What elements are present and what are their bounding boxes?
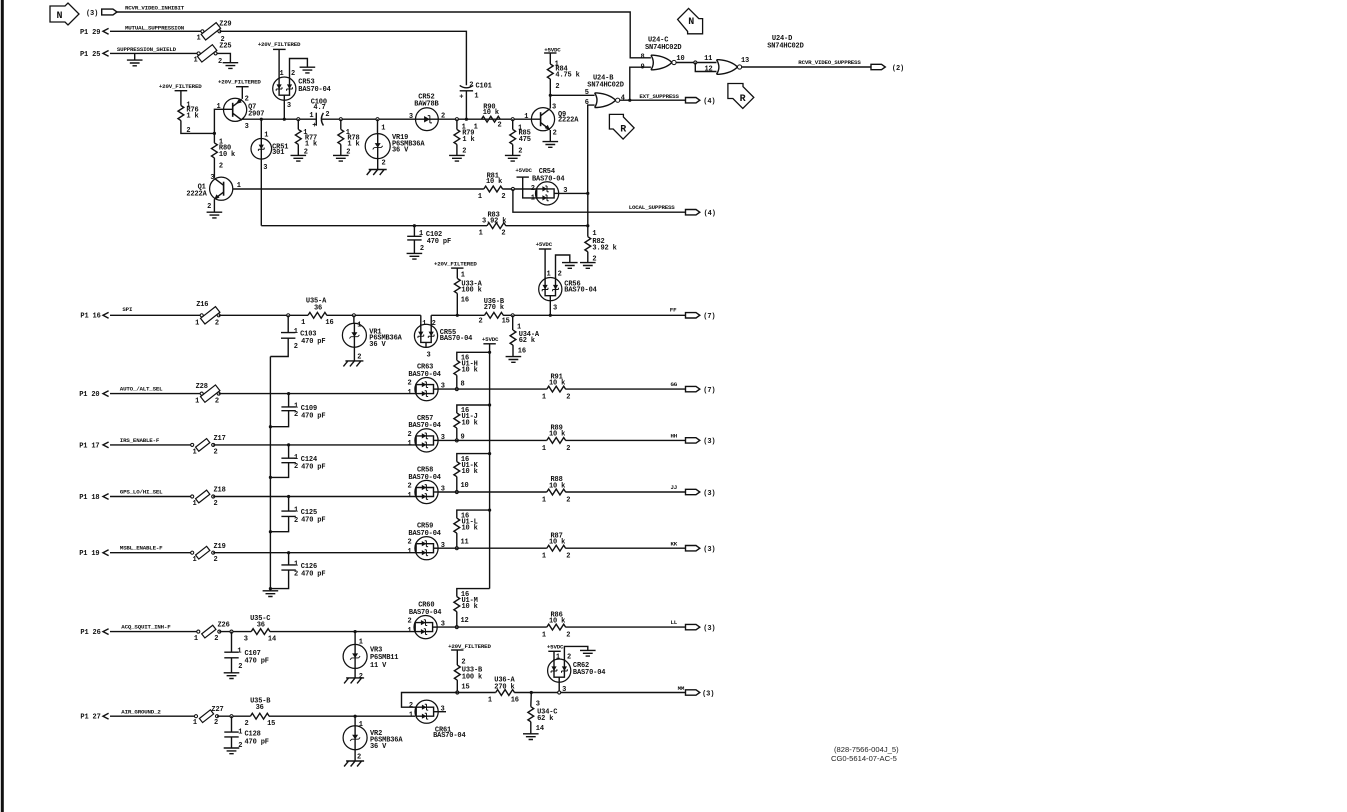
svg-text:2: 2: [498, 122, 502, 130]
svg-text:Z25: Z25: [219, 42, 231, 50]
wire: [219, 314, 308, 316]
svg-text:10 k: 10 k: [486, 178, 502, 186]
wire: [340, 119, 342, 129]
wire: [456, 144, 458, 155]
zener VR1: [342, 322, 402, 362]
junction: [455, 547, 458, 550]
wire: [213, 133, 215, 143]
svg-text:2: 2: [214, 448, 218, 456]
resistor U1-H: [454, 355, 478, 389]
ground: [223, 63, 239, 69]
wire: [512, 315, 514, 330]
wire: [110, 552, 192, 554]
resistor R90: [474, 103, 502, 131]
wire CR53 pin3 to bus: [283, 100, 285, 119]
wire: [456, 268, 458, 278]
svg-text:+20V_FILTERED: +20V_FILTERED: [258, 41, 301, 48]
svg-text:3: 3: [536, 701, 540, 709]
svg-text:2: 2: [555, 83, 559, 91]
output flag GG: [686, 386, 716, 395]
svg-text:10 k: 10 k: [462, 468, 478, 476]
svg-text:BAS70-04: BAS70-04: [408, 474, 440, 482]
svg-text:1: 1: [238, 729, 242, 737]
svg-text:36 V: 36 V: [369, 341, 386, 349]
wire CR56 pin1: [544, 249, 546, 278]
output flag FF: [686, 313, 716, 322]
svg-text:P1 17: P1 17: [79, 442, 99, 450]
svg-text:EXT_SUPPRESS: EXT_SUPPRESS: [639, 93, 679, 100]
diode CR56: [539, 271, 597, 313]
resistor R84: [547, 61, 579, 91]
svg-text:36: 36: [314, 304, 322, 312]
svg-text:3: 3: [553, 305, 557, 313]
connector pin P1 29: [80, 28, 109, 36]
wire Q1 emitter: [213, 199, 215, 212]
svg-text:1: 1: [359, 638, 363, 646]
svg-text:11 V: 11 V: [370, 662, 387, 670]
resistor R81: [478, 172, 506, 201]
svg-text:BAS70-04: BAS70-04: [408, 371, 440, 379]
svg-text:36: 36: [257, 621, 265, 629]
resistor U1-J: [454, 407, 478, 441]
wire to CR61 pin2: [402, 693, 458, 708]
wire: [213, 552, 416, 554]
svg-text:12: 12: [705, 65, 713, 73]
svg-text:+5VDC: +5VDC: [515, 167, 532, 174]
svg-text:14: 14: [268, 636, 276, 644]
svg-text:P1 20: P1 20: [79, 391, 99, 399]
svg-text:R: R: [620, 125, 626, 136]
connector pin P1 20: [79, 391, 108, 399]
svg-text:+20V_FILTERED: +20V_FILTERED: [159, 83, 202, 90]
wire: [110, 393, 202, 395]
wire: [354, 668, 356, 678]
output flag HH: [686, 438, 716, 447]
wire: [438, 491, 547, 493]
capacitor C100: [309, 98, 329, 129]
net label SPI: [122, 306, 133, 313]
svg-text:475: 475: [519, 136, 531, 144]
capacitor C125: [270, 497, 325, 532]
zener VR3: [343, 638, 398, 681]
svg-text:10 k: 10 k: [219, 151, 235, 159]
svg-text:3: 3: [210, 174, 214, 182]
svg-text:1: 1: [264, 132, 268, 140]
svg-text:+: +: [312, 122, 316, 130]
net label AIR_GROUND_2: [121, 708, 161, 715]
input flag (3): [86, 9, 117, 18]
wire Z25 to ground: [216, 53, 230, 62]
svg-text:1: 1: [422, 320, 426, 328]
wire SPI: [110, 314, 202, 316]
wire: [340, 144, 342, 155]
wire R83 row: [261, 225, 487, 227]
junction: [488, 351, 491, 354]
power +5VDC: [515, 167, 532, 177]
wire to CR54 pin 2: [502, 188, 536, 190]
capacitor C107: [224, 632, 269, 673]
svg-text:2: 2: [219, 163, 223, 171]
wire CR51 pin3 down: [260, 159, 262, 226]
resistor R87: [542, 532, 570, 560]
svg-text:P1 25: P1 25: [80, 51, 100, 59]
ground: [224, 673, 240, 679]
svg-text:2: 2: [558, 271, 562, 279]
wire CR53 pin1: [278, 49, 280, 77]
svg-text:470 pF: 470 pF: [427, 238, 451, 246]
wire down to R82 node: [587, 193, 589, 225]
svg-text:1: 1: [408, 548, 412, 556]
wire: [587, 252, 589, 263]
junction: [287, 551, 290, 554]
svg-text:62 k: 62 k: [519, 337, 535, 345]
svg-text:LOCAL_SUPPRESS: LOCAL_SUPPRESS: [629, 204, 676, 211]
svg-text:3: 3: [263, 164, 267, 172]
wire: [456, 293, 458, 315]
resistor R80: [211, 139, 235, 171]
diode CR55: [414, 320, 472, 359]
svg-text:2: 2: [408, 431, 412, 439]
wire: [549, 79, 551, 95]
resistor U36-B: [479, 298, 510, 326]
junction: [213, 132, 216, 135]
svg-text:10: 10: [461, 482, 469, 490]
svg-text:2: 2: [214, 719, 218, 727]
net label IRS_ENABLE-F: [120, 437, 160, 444]
svg-text:1: 1: [408, 389, 412, 397]
transistor Q7: [217, 96, 265, 131]
capacitor C101: [459, 81, 491, 101]
wire: [213, 496, 416, 498]
svg-text:2: 2: [469, 81, 473, 89]
svg-text:BAW78B: BAW78B: [414, 100, 439, 108]
wire: [457, 589, 490, 597]
net label GG: [671, 381, 678, 388]
ground: [407, 253, 423, 259]
svg-text:36 V: 36 V: [370, 743, 387, 751]
wire: [354, 750, 356, 761]
svg-text:10 k: 10 k: [549, 539, 565, 547]
svg-text:(4): (4): [704, 210, 716, 218]
off-page connector R: [728, 84, 754, 109]
svg-text:2: 2: [294, 463, 298, 471]
svg-text:2: 2: [566, 445, 570, 453]
svg-text:1: 1: [280, 70, 284, 78]
svg-text:1: 1: [408, 627, 412, 635]
svg-text:2: 2: [408, 618, 412, 626]
svg-text:2: 2: [566, 632, 570, 640]
svg-text:2: 2: [214, 556, 218, 564]
svg-text:3.92 k: 3.92 k: [592, 245, 616, 253]
svg-text:470 pF: 470 pF: [245, 657, 269, 665]
svg-text:GPS_LO/HI_SEL: GPS_LO/HI_SEL: [120, 489, 163, 496]
wire: [456, 119, 458, 129]
wire: [269, 715, 415, 717]
svg-text:2: 2: [214, 500, 218, 508]
wire: [565, 491, 685, 493]
wire CR54 pin3: [559, 192, 588, 194]
wire: [456, 533, 458, 548]
wire: [213, 444, 416, 446]
power +20V_FILTERED: [218, 78, 261, 86]
svg-text:FF: FF: [670, 307, 677, 314]
wire Q1 collector to R81: [233, 188, 484, 190]
svg-text:BAS70-04: BAS70-04: [564, 287, 596, 295]
svg-text:3: 3: [245, 123, 249, 131]
wire to CR54 pin 1: [523, 177, 537, 198]
junction: [376, 118, 379, 121]
svg-text:2: 2: [215, 319, 219, 327]
output flag RCVR_VIDEO_SUPPRESS: [871, 64, 904, 73]
filter Z16: [195, 301, 220, 328]
zener VR19: [365, 125, 425, 168]
NOR gate U24-B: [585, 75, 625, 108]
filter Z17: [191, 435, 226, 456]
resistor R91: [542, 373, 570, 401]
svg-text:+5VDC: +5VDC: [536, 241, 553, 248]
diode CR63: [408, 364, 445, 401]
wire MUTUAL_SUPPRESSION: [110, 30, 202, 32]
wire +5VDC rail: [489, 344, 491, 589]
net label EXT_SUPPRESS: [639, 93, 679, 100]
svg-text:ACQ_SQUIT_INH-F: ACQ_SQUIT_INH-F: [121, 624, 171, 631]
svg-text:1: 1: [294, 328, 298, 336]
power +20V_FILTERED: [434, 261, 477, 269]
svg-text:IRS_ENABLE-F: IRS_ENABLE-F: [120, 437, 160, 444]
diode CR57: [408, 415, 445, 452]
svg-text:2: 2: [325, 111, 329, 119]
svg-text:270 k: 270 k: [484, 304, 504, 312]
wire: [180, 91, 182, 106]
svg-text:+: +: [459, 94, 463, 102]
svg-text:SUPPRESSION_SHIELD: SUPPRESSION_SHIELD: [117, 46, 177, 53]
svg-text:62 k: 62 k: [537, 715, 553, 723]
ground: [580, 650, 596, 656]
svg-text:12: 12: [461, 617, 469, 625]
junction: [297, 118, 300, 121]
svg-text:(3): (3): [703, 490, 715, 498]
wire: [297, 144, 299, 155]
svg-text:(3): (3): [703, 546, 715, 554]
svg-text:270 k: 270 k: [494, 683, 514, 691]
wire SUPPRESSION_SHIELD: [110, 52, 198, 54]
svg-text:SN74HC02D: SN74HC02D: [767, 43, 803, 51]
svg-text:(3): (3): [703, 625, 715, 633]
net label FF: [670, 307, 677, 314]
svg-text:SPI: SPI: [122, 306, 133, 313]
svg-text:2: 2: [408, 380, 412, 388]
wire to ground: [134, 53, 136, 60]
capacitor C124: [270, 445, 325, 478]
wire: [353, 347, 355, 361]
svg-text:2: 2: [215, 398, 219, 406]
svg-text:2: 2: [245, 720, 249, 728]
connector pin P1 18: [79, 494, 108, 502]
junction: [488, 403, 491, 406]
junction: [269, 476, 272, 479]
net label RCVR_VIDEO_INHIBIT: [125, 4, 185, 11]
svg-text:1 k: 1 k: [305, 141, 317, 149]
wire capacitor rail: [269, 357, 271, 589]
svg-text:16: 16: [461, 297, 469, 305]
svg-text:1: 1: [556, 653, 560, 661]
junction: [287, 495, 290, 498]
svg-text:+20V_FILTERED: +20V_FILTERED: [448, 643, 491, 650]
wire to U24-B pin 5: [550, 94, 594, 96]
svg-text:2: 2: [531, 185, 535, 193]
svg-text:470 pF: 470 pF: [301, 464, 325, 472]
ground: [300, 67, 316, 73]
svg-text:2: 2: [408, 539, 412, 547]
wire LOCAL_SUPPRESS: [513, 189, 686, 212]
junction: [339, 118, 342, 121]
svg-text:BAS70-04: BAS70-04: [409, 609, 441, 617]
svg-text:P6SMB11: P6SMB11: [370, 654, 398, 662]
resistor R85: [510, 124, 531, 155]
wire: [565, 388, 685, 390]
output flag EXT_SUPPRESS: [686, 98, 716, 107]
svg-text:1: 1: [542, 394, 546, 402]
svg-text:1: 1: [193, 719, 197, 727]
svg-text:2: 2: [238, 663, 242, 671]
wire bus: [321, 118, 415, 120]
svg-text:1: 1: [197, 35, 201, 43]
net label LL: [671, 619, 678, 626]
svg-text:2: 2: [291, 70, 295, 78]
wire FF: [503, 314, 685, 316]
svg-text:13: 13: [741, 57, 749, 65]
wire C101 to bus: [465, 91, 467, 119]
svg-text:1 k: 1 k: [462, 136, 474, 144]
svg-text:10 k: 10 k: [549, 379, 565, 387]
svg-text:1: 1: [479, 229, 483, 237]
svg-text:16: 16: [518, 348, 526, 356]
junction: [558, 691, 561, 694]
power +20V_FILTERED: [448, 643, 491, 650]
off-page connector R: [609, 114, 634, 139]
wire to U24-D pin 12: [695, 63, 716, 72]
svg-text:3: 3: [427, 351, 431, 359]
wire RCVR_VIDEO_INHIBIT: [117, 12, 651, 58]
svg-text:1: 1: [419, 230, 423, 238]
wire: [354, 716, 356, 726]
svg-text:1: 1: [194, 57, 198, 65]
document number: [831, 745, 899, 763]
svg-text:5: 5: [585, 89, 589, 97]
wire EXT_SUPPRESS: [619, 99, 685, 101]
svg-text:2: 2: [408, 482, 412, 490]
wire: [437, 626, 547, 628]
svg-text:10 k: 10 k: [549, 617, 565, 625]
net label GPS_LO/HI_SEL: [120, 489, 163, 496]
resistor U1-L: [454, 512, 478, 546]
resistor R88: [542, 476, 570, 504]
svg-text:1: 1: [547, 271, 551, 279]
svg-text:(7): (7): [703, 313, 715, 321]
wire: [353, 315, 355, 323]
svg-text:1: 1: [301, 319, 305, 327]
wire: [587, 226, 589, 237]
wire CR53 pin2 to ground: [290, 59, 308, 78]
svg-text:1: 1: [542, 553, 546, 561]
filter Z28: [195, 383, 220, 406]
off-page connector N: [50, 3, 79, 25]
diode CR51: [251, 132, 288, 172]
net label LOCAL_SUPPRESS: [629, 204, 676, 211]
power +5VDC: [544, 46, 561, 53]
svg-text:4: 4: [621, 94, 625, 102]
svg-text:2222A: 2222A: [558, 117, 579, 125]
wire: [438, 547, 547, 549]
output flag MM: [686, 690, 715, 699]
wire R80 to Q1: [213, 158, 215, 178]
wire U24-C out: [676, 62, 716, 64]
wire CR56 pin3: [549, 301, 551, 316]
svg-text:N: N: [688, 17, 694, 28]
wire: [457, 454, 490, 462]
wire: [456, 428, 458, 440]
svg-text:1: 1: [237, 647, 241, 655]
chassis ground: [344, 678, 364, 684]
svg-text:1: 1: [195, 398, 199, 406]
power +5VDC: [547, 644, 564, 652]
chassis ground: [343, 361, 363, 367]
wire: [269, 589, 271, 591]
svg-text:P1 18: P1 18: [79, 494, 99, 502]
svg-text:BAS70-04: BAS70-04: [298, 86, 330, 94]
wire: [456, 680, 458, 692]
net label KK: [671, 540, 678, 547]
resistor U34-C: [528, 701, 557, 733]
ground: [224, 748, 240, 754]
wire Q9 emitter: [549, 130, 551, 142]
power +5VDC: [482, 336, 499, 344]
output flag LL: [686, 624, 716, 633]
diode CR62: [548, 653, 606, 694]
junction: [269, 530, 272, 533]
wire: [512, 119, 514, 129]
resistor U35-A: [301, 297, 333, 327]
resistor R83: [479, 211, 507, 237]
svg-text:470 pF: 470 pF: [301, 570, 325, 578]
wire U24-B pin6: [588, 105, 595, 193]
output flag KK: [686, 546, 716, 555]
junction: [354, 715, 357, 718]
svg-text:1: 1: [524, 113, 528, 121]
svg-text:1: 1: [478, 193, 482, 201]
junction: [352, 314, 355, 317]
ground: [543, 142, 559, 148]
wire: [530, 693, 533, 707]
wire R76 to node: [181, 121, 215, 134]
svg-text:10 k: 10 k: [549, 431, 565, 439]
svg-text:3.92 k: 3.92 k: [482, 217, 506, 225]
svg-text:P1 26: P1 26: [80, 629, 100, 637]
diode CR61: [409, 700, 466, 740]
svg-text:10 k: 10 k: [462, 603, 478, 611]
svg-text:10 k: 10 k: [462, 525, 478, 533]
ground: [263, 591, 279, 597]
chassis ground: [344, 761, 364, 767]
diode CR59: [408, 523, 445, 560]
junction: [269, 425, 272, 428]
wire: [219, 631, 251, 633]
wire: [456, 650, 458, 665]
capacitor C126: [270, 553, 325, 589]
junction: [269, 587, 272, 590]
svg-text:Z17: Z17: [214, 435, 226, 443]
wire: [456, 375, 458, 389]
